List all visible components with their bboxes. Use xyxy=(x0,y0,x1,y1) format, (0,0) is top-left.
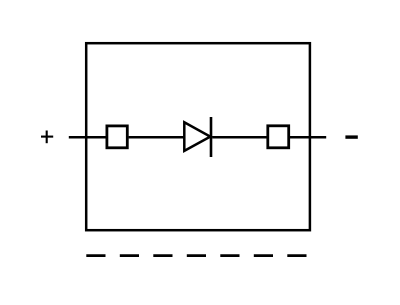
terminal X2 (right clamp square) xyxy=(268,126,289,148)
dashed mounting-rail line xyxy=(86,254,306,257)
node + (positive terminal label) xyxy=(41,131,53,144)
wire (right lead out of module) xyxy=(290,136,327,139)
diode D1 anode triangle xyxy=(184,122,210,151)
module outline (surge protector housing) xyxy=(86,43,310,230)
node - (negative terminal label) xyxy=(345,135,357,138)
diode D1 cathode bar xyxy=(210,117,213,157)
wire (left square to diode anode) xyxy=(129,136,185,139)
wire (diode cathode to right square) xyxy=(212,136,267,139)
terminal X1 (left clamp square) xyxy=(107,126,127,148)
wire (left lead into module) xyxy=(69,136,106,139)
